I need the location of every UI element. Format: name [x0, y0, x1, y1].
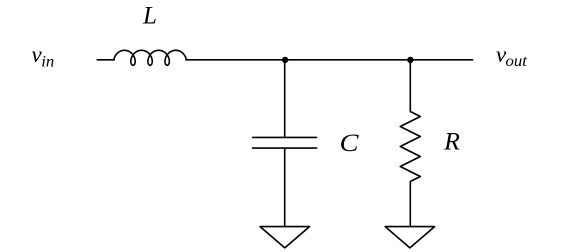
inductor L1 coil	[114, 50, 186, 65]
wire from inductor to node A	[186, 59, 285, 61]
label v_out	[496, 42, 527, 70]
svg-text:R: R	[443, 128, 460, 155]
svg-text:in: in	[41, 53, 54, 70]
wire node B down to resistor	[409, 60, 411, 112]
node B junction dot	[407, 57, 413, 63]
capacitor C1 top plate	[253, 136, 317, 138]
wire node A down to capacitor top plate	[284, 60, 286, 138]
wire capacitor bottom plate down to ground	[284, 148, 286, 227]
label v_in	[32, 42, 55, 70]
svg-text:out: out	[506, 53, 528, 70]
wire from node A to node B	[285, 59, 410, 61]
node A junction dot	[282, 57, 288, 63]
wire resistor down to ground	[409, 182, 411, 227]
svg-text:C: C	[340, 130, 359, 157]
wire input lead from v_in to inductor	[97, 59, 114, 61]
ground symbol below capacitor	[260, 227, 309, 248]
svg-text:L: L	[142, 2, 157, 29]
wire from node B to v_out	[410, 59, 472, 61]
resistor R1 zigzag	[400, 112, 420, 182]
ground symbol below resistor	[385, 227, 434, 248]
capacitor C1 bottom plate	[253, 147, 317, 149]
